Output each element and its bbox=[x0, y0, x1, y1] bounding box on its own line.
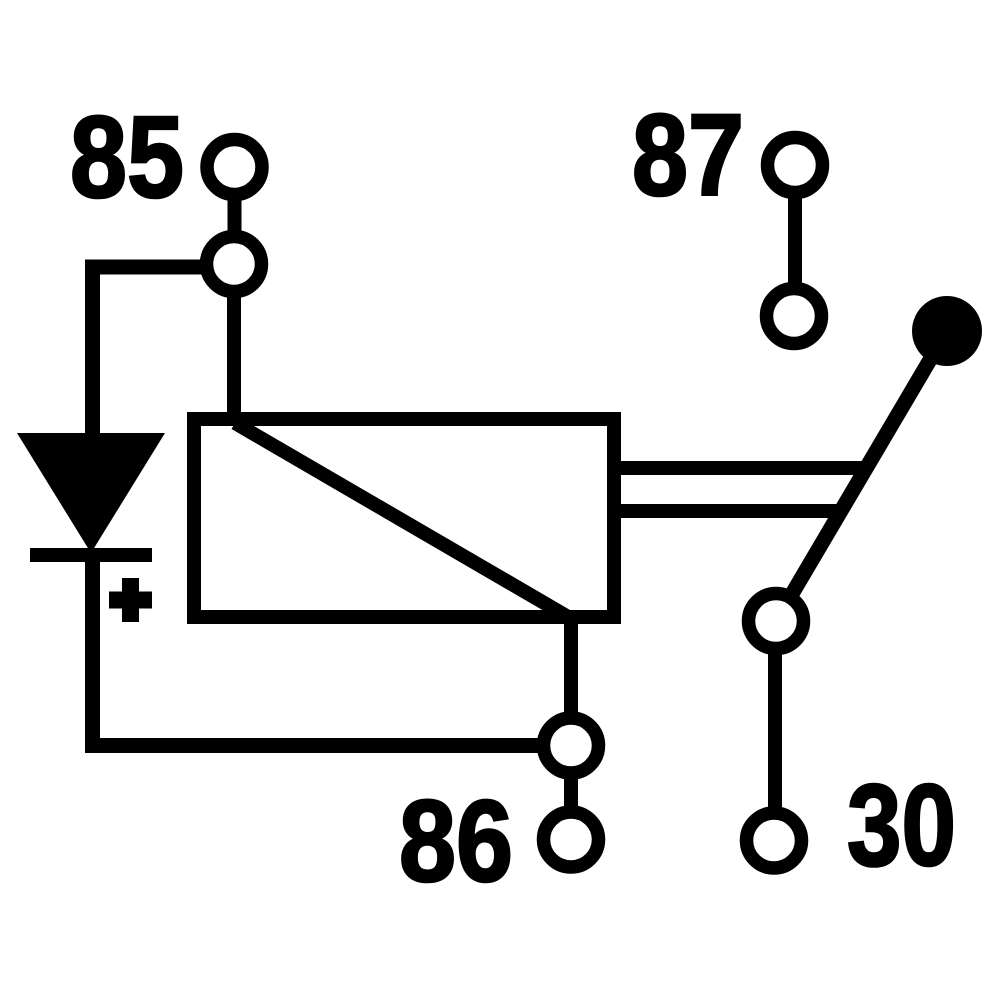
wire node A to coil top bbox=[227, 294, 241, 424]
relay coil box bbox=[194, 419, 614, 617]
wire diode anode down to bottom rail bbox=[85, 555, 100, 738]
wire 30 terminal link bbox=[768, 652, 782, 812]
svg-text:87: 87 bbox=[632, 90, 744, 220]
terminal 87 upper circle bbox=[768, 138, 823, 193]
wire node A left to diode cathode (top loop) bbox=[93, 267, 210, 434]
armature linkage lower bar bbox=[610, 504, 845, 518]
terminal 86 upper circle (node B) bbox=[544, 718, 599, 773]
terminal 30 upper circle (pivot) bbox=[749, 594, 804, 649]
terminal 85 upper circle bbox=[207, 140, 262, 195]
terminal 86 lower circle bbox=[544, 812, 599, 867]
armature linkage upper bar bbox=[610, 461, 869, 475]
svg-text:85: 85 bbox=[70, 92, 184, 222]
terminal 30 lower circle bbox=[747, 813, 802, 868]
terminal 87 lower circle (fixed contact) bbox=[767, 289, 822, 344]
diode D1 cathode triangle bbox=[17, 433, 165, 553]
switch lever arm bbox=[789, 331, 947, 599]
coil diagonal stroke bbox=[235, 423, 570, 618]
diode D1 anode bar bbox=[30, 548, 152, 562]
wire bottom rail to terminal 86 bbox=[85, 738, 539, 753]
switch knob (filled ball) bbox=[912, 296, 982, 366]
svg-text:30: 30 bbox=[847, 760, 956, 890]
wire 85 terminal link bbox=[228, 196, 242, 238]
wire 86 terminal link bbox=[564, 775, 578, 812]
polarity mark plus bbox=[109, 578, 152, 622]
terminal 85 lower circle (node A) bbox=[207, 237, 262, 292]
wire coil bottom to terminal 86 bbox=[564, 617, 578, 714]
wire 87 terminal link bbox=[788, 195, 802, 287]
svg-text:86: 86 bbox=[399, 776, 513, 906]
